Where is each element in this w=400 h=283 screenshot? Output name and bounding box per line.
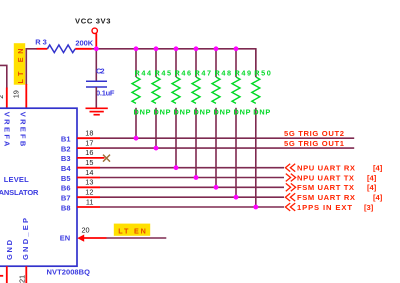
- svg-text:VCC 3V3: VCC 3V3: [75, 16, 111, 25]
- port NPU UART TX: [286, 173, 377, 182]
- svg-text:R50: R50: [254, 68, 270, 77]
- svg-text:DNP: DNP: [154, 108, 171, 117]
- svg-text:R46: R46: [175, 68, 192, 77]
- resistor R44 DNP: [132, 49, 152, 138]
- net label LT EN (vertical, top left): [16, 49, 25, 84]
- svg-text:R49: R49: [235, 68, 252, 77]
- svg-text:21: 21: [17, 275, 26, 283]
- resistor R45 DNP: [152, 49, 171, 148]
- pin 17 B2: [61, 138, 354, 153]
- svg-text:DNP: DNP: [253, 108, 270, 117]
- resistor R3: [47, 45, 75, 53]
- wire R3 left lead: [37, 48, 48, 50]
- junction R46 to pin row: [174, 165, 179, 170]
- svg-text:DNP: DNP: [234, 108, 251, 117]
- bottom pin stubs GND / GND_EP: [6, 266, 8, 283]
- wire C2 top: [95, 49, 97, 81]
- ground: [86, 108, 108, 114]
- svg-text:0.1uF: 0.1uF: [96, 89, 115, 98]
- svg-text:[4]: [4]: [373, 164, 383, 173]
- svg-text:B1: B1: [61, 135, 71, 144]
- wire to VREFA: [0, 65, 7, 88]
- pin 14 B5: [61, 168, 284, 183]
- svg-text:12: 12: [85, 188, 93, 197]
- junction on bus at R44: [134, 46, 139, 51]
- pin 19 stub: [25, 84, 27, 108]
- junction on bus at R47: [194, 46, 199, 51]
- svg-text:1PPS IN EXT: 1PPS IN EXT: [297, 203, 352, 212]
- junction R48 to pin row: [214, 185, 219, 190]
- svg-text:B8: B8: [61, 203, 71, 212]
- pin 12 B7: [61, 188, 284, 203]
- svg-text:LEVEL: LEVEL: [4, 175, 29, 184]
- junction R45 to pin row: [154, 146, 159, 151]
- IC U1 NVT2008BQ body: [0, 108, 77, 266]
- pin 2 stub: [6, 88, 8, 109]
- svg-text:2: 2: [0, 95, 5, 99]
- svg-text:18: 18: [85, 129, 93, 138]
- wire LT_EN net from R3 to pin 19: [26, 49, 36, 85]
- svg-text:NPU UART RX: NPU UART RX: [297, 164, 355, 173]
- port NPU UART RX: [285, 164, 382, 173]
- svg-text:DNP: DNP: [214, 108, 231, 117]
- svg-text:16: 16: [85, 148, 93, 157]
- pin 13 B6: [61, 178, 284, 193]
- svg-text:R44: R44: [135, 68, 152, 77]
- svg-text:R47: R47: [195, 68, 212, 77]
- highlight box LT EN vertical: [14, 43, 25, 84]
- port 1PPS IN EXT: [285, 203, 373, 212]
- svg-text:DNP: DNP: [194, 108, 211, 117]
- svg-text:B3: B3: [61, 154, 71, 163]
- svg-text:FSM UART TX: FSM UART TX: [297, 183, 354, 192]
- svg-text:[4]: [4]: [367, 183, 377, 192]
- port FSM UART TX: [286, 183, 377, 192]
- svg-text:13: 13: [85, 178, 93, 187]
- svg-text:20: 20: [82, 226, 90, 235]
- no-connect X on B3: [103, 155, 110, 162]
- svg-text:DNP: DNP: [134, 108, 151, 117]
- svg-text:B4: B4: [61, 164, 71, 173]
- resistor R47 DNP: [192, 49, 211, 178]
- junction R44 to pin row: [134, 136, 139, 141]
- pin 11 B8: [61, 197, 284, 212]
- junction R49 to pin row: [234, 195, 239, 200]
- svg-text:EN: EN: [60, 234, 70, 243]
- svg-text:C2: C2: [96, 67, 105, 76]
- svg-text:NPU UART TX: NPU UART TX: [297, 173, 354, 182]
- junction on bus at R45: [154, 46, 159, 51]
- resistor R49 DNP: [232, 49, 251, 197]
- junction R50 to pin row: [253, 205, 258, 210]
- net label LT EN (on EN wire): [118, 227, 146, 236]
- pin 20 EN: [60, 226, 167, 243]
- wire VCC bus: [91, 49, 256, 77]
- svg-text:R45: R45: [155, 68, 172, 77]
- port FSM UART RX: [285, 193, 382, 202]
- junction on bus at R46: [174, 46, 179, 51]
- wire R3 right lead: [75, 48, 91, 50]
- svg-text:GND: GND: [5, 239, 14, 260]
- power symbol VCC 3V3: [92, 28, 97, 33]
- svg-text:R3: R3: [35, 37, 47, 46]
- svg-text:B6: B6: [61, 184, 71, 193]
- svg-text:11: 11: [86, 197, 94, 206]
- highlight box LT EN horizontal: [114, 224, 150, 236]
- svg-text:5G TRIG OUT2: 5G TRIG OUT2: [284, 129, 344, 138]
- resistor R50 DNP: [252, 49, 271, 207]
- junction VCC: [94, 46, 99, 51]
- svg-text:[4]: [4]: [373, 193, 383, 202]
- svg-text:5G TRIG OUT1: 5G TRIG OUT1: [284, 139, 345, 148]
- resistor R48 DNP: [212, 49, 231, 188]
- svg-text:17: 17: [85, 138, 93, 147]
- pin 18 B1: [61, 129, 354, 144]
- svg-text:14: 14: [85, 168, 93, 177]
- pin 15 B4: [61, 158, 284, 173]
- svg-text:B5: B5: [61, 174, 71, 183]
- svg-text:15: 15: [85, 158, 93, 167]
- svg-text:19: 19: [11, 90, 20, 98]
- svg-text:B2: B2: [61, 144, 71, 153]
- svg-text:[4]: [4]: [367, 173, 377, 182]
- svg-text:DNP: DNP: [174, 108, 191, 117]
- wire C2 bottom: [95, 87, 97, 108]
- svg-text:[3]: [3]: [364, 203, 374, 212]
- svg-text:B7: B7: [61, 194, 71, 203]
- svg-text:200K: 200K: [75, 38, 93, 47]
- junction on bus at R48: [214, 46, 219, 51]
- svg-text:R48: R48: [215, 68, 232, 77]
- svg-text:RANSLATOR: RANSLATOR: [0, 188, 39, 197]
- junction R47 to pin row: [194, 175, 199, 180]
- pin 16 B3: [61, 148, 105, 163]
- svg-text:FSM UART RX: FSM UART RX: [297, 193, 355, 202]
- junction on bus at R49: [234, 46, 239, 51]
- resistor R46 DNP: [172, 49, 191, 168]
- svg-text:NVT2008BQ: NVT2008BQ: [47, 267, 91, 276]
- stray wire left bottom: [0, 275, 3, 277]
